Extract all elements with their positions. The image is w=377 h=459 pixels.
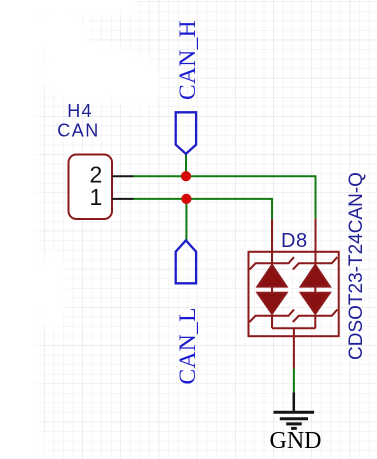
pin 1 stub <box>112 198 134 200</box>
svg-text:CAN_H: CAN_H <box>175 20 201 100</box>
wire CAN_H net <box>134 176 316 219</box>
TVS diode pair left <box>250 257 295 328</box>
svg-text:CAN_L: CAN_L <box>175 307 201 384</box>
svg-text:H4: H4 <box>67 101 92 121</box>
net flag CAN_H <box>176 112 196 154</box>
D8 pin 1 wire <box>271 219 273 264</box>
D8 common anode link <box>272 327 316 329</box>
svg-text:D8: D8 <box>281 230 308 252</box>
wire to CAN_H flag <box>185 154 187 176</box>
junction CAN_L <box>181 194 191 204</box>
wire to ground <box>293 369 295 393</box>
TVS array D8 box <box>249 252 339 336</box>
connector H4 <box>69 155 113 220</box>
ground symbol <box>274 393 315 429</box>
D8 pin 2 wire <box>315 219 317 265</box>
wire CAN_L net <box>134 199 273 220</box>
pin 2 stub <box>112 175 134 177</box>
net flag CAN_L <box>176 240 196 283</box>
wire to CAN_L flag <box>185 199 187 241</box>
white margin left <box>0 0 161 459</box>
D8 ground pin <box>293 328 295 368</box>
svg-text:GND: GND <box>270 428 322 454</box>
svg-text:CDSOT23-T24CAN-Q: CDSOT23-T24CAN-Q <box>346 172 367 360</box>
svg-text:CAN: CAN <box>57 121 100 141</box>
svg-text:1: 1 <box>90 184 103 210</box>
junction CAN_H <box>181 171 191 181</box>
TVS diode pair right <box>293 257 338 328</box>
